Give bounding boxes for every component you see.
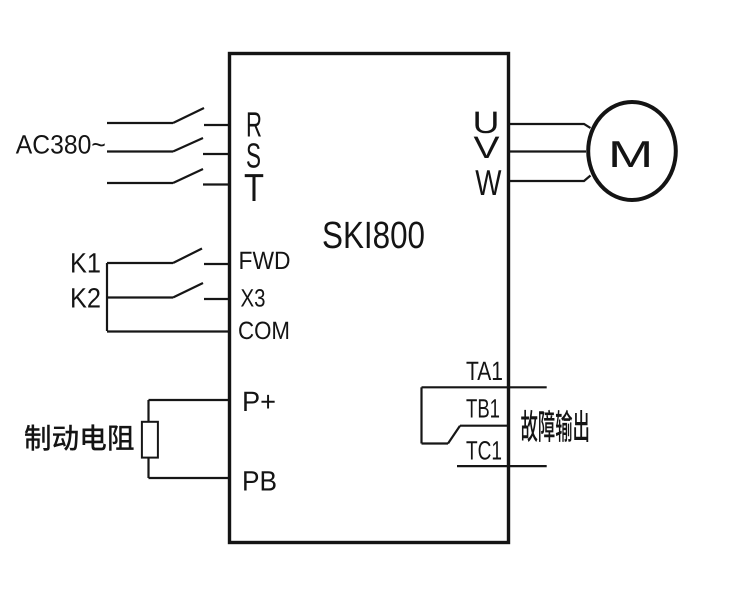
svg-text:COM: COM (238, 317, 290, 345)
switch S1 stub to R terminal (204, 124, 229, 126)
wire K bus vertical (106, 263, 108, 331)
relay K3 blade (448, 426, 460, 444)
svg-text:K1: K1 (70, 248, 101, 279)
wire V to motor (508, 150, 586, 152)
switch S1 blade (173, 108, 204, 123)
wire P+ to resistor (149, 399, 230, 401)
svg-text:X3: X3 (241, 285, 266, 313)
svg-text:TA1: TA1 (466, 356, 503, 386)
switch S2 blade (173, 138, 203, 152)
resistor R1 body (142, 422, 158, 458)
switch S1 (R phase) wire (107, 122, 173, 124)
wire resistor bottom lead (147, 458, 149, 478)
switch K1 stub to FWD (204, 263, 229, 265)
wire COM (107, 330, 229, 332)
wire TA1 (422, 386, 547, 388)
svg-text:V: V (474, 130, 500, 165)
label guzhangshuchu 故障输出 (fault output) (521, 410, 588, 442)
switch S3 stub to T terminal (203, 183, 229, 185)
svg-text:T: T (244, 167, 264, 210)
wire TC1 (457, 465, 547, 467)
svg-text:W: W (475, 162, 501, 203)
switch K2 stub to X3 (204, 298, 229, 300)
motor M1 circle (588, 102, 676, 200)
svg-text:K2: K2 (70, 283, 101, 314)
svg-text:TB1: TB1 (466, 394, 500, 424)
wire resistor top lead (147, 400, 149, 422)
inverter box U1 (SKI800) (230, 54, 509, 543)
switch S3 blade (173, 169, 203, 183)
wire TB1 (460, 425, 509, 427)
wire W to motor (508, 176, 591, 182)
wire U to motor (508, 124, 591, 128)
svg-text:FWD: FWD (239, 247, 291, 275)
svg-text:PB: PB (242, 466, 277, 497)
switch S2 stub to S terminal (203, 153, 229, 155)
switch K2 wire (107, 296, 173, 298)
switch K1 wire (107, 262, 173, 264)
switch S3 (T phase) wire (107, 182, 173, 184)
switch K2 blade (173, 283, 203, 298)
wire relay common stub (422, 442, 449, 444)
wire PB to resistor (149, 477, 230, 479)
svg-text:P+: P+ (242, 386, 276, 417)
switch S2 (S phase) wire (107, 150, 173, 152)
svg-text:SKI800: SKI800 (322, 215, 425, 257)
switch K1 blade (173, 249, 202, 264)
label zhidongdianzu 制动电阻 (braking resistor) (25, 424, 134, 450)
wire relay common vertical (420, 387, 422, 443)
svg-text:M: M (608, 133, 653, 175)
svg-text:TC1: TC1 (466, 436, 502, 466)
svg-text:AC380~: AC380~ (16, 130, 106, 160)
